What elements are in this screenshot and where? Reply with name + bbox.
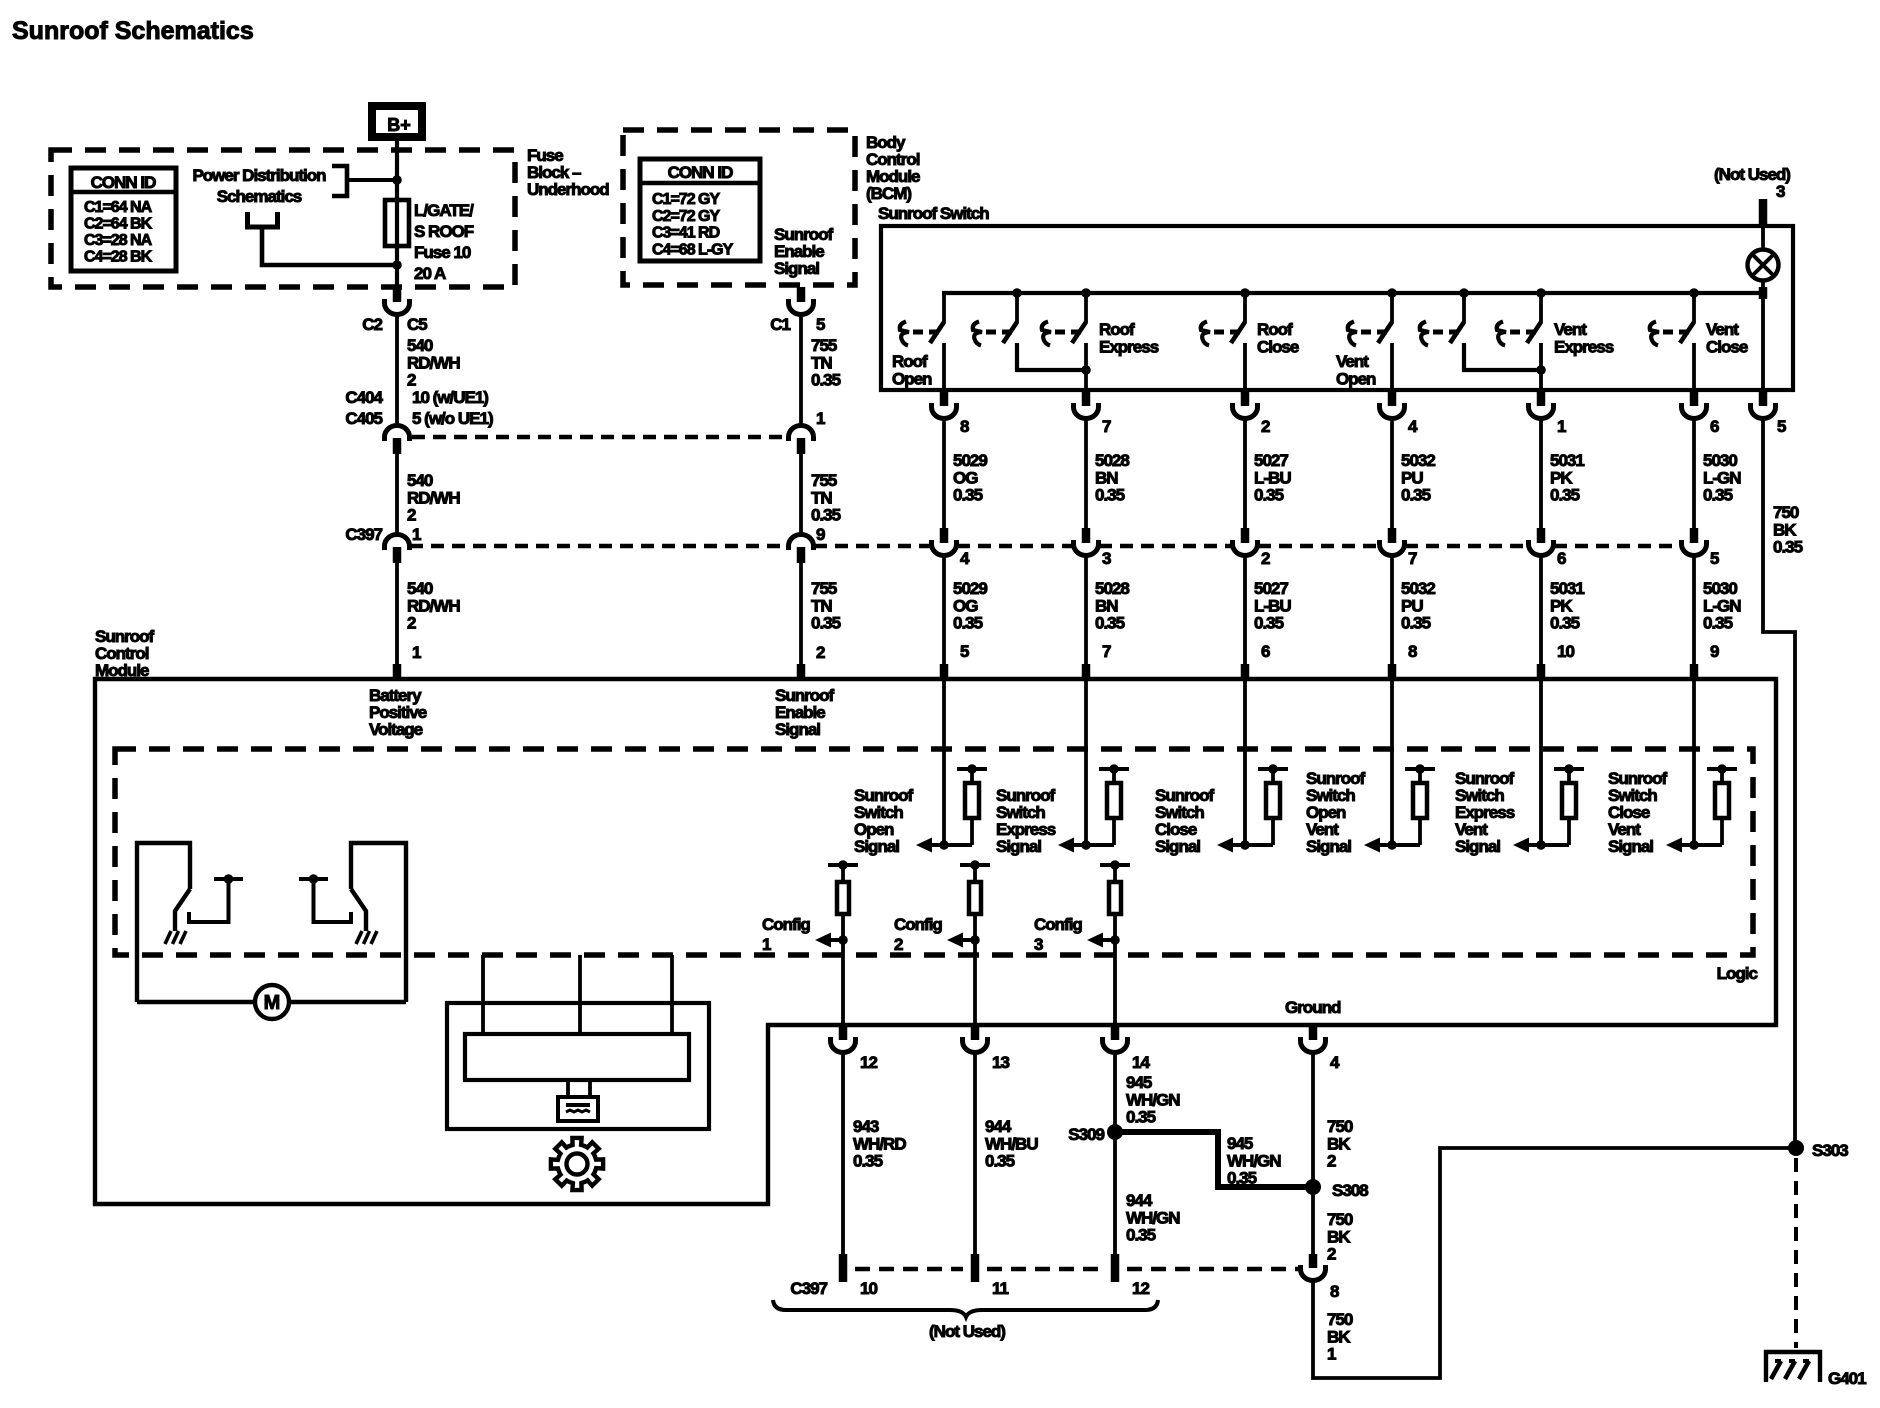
- svg-text:0.35: 0.35: [985, 1152, 1015, 1171]
- svg-text:5: 5: [1777, 417, 1786, 436]
- svg-text:5029: 5029: [953, 451, 987, 470]
- svg-text:C2=72 GY: C2=72 GY: [652, 208, 720, 225]
- in-line connector C397 pin 4: [940, 528, 949, 543]
- svg-text:C4=68 L-GY: C4=68 L-GY: [652, 241, 734, 258]
- config 3 take-off arrow: [1103, 938, 1115, 942]
- connector C1 pin stub: [797, 287, 806, 302]
- svg-text:0.35: 0.35: [1126, 1108, 1156, 1127]
- svg-text:Signal: Signal: [1306, 837, 1351, 856]
- module pin stub 7: [1082, 664, 1091, 678]
- link pair B to Vent Express: [1464, 343, 1541, 370]
- switch pair sw A: dashed actuator link: [986, 330, 996, 335]
- svg-text:Signal: Signal: [1155, 837, 1200, 856]
- resistor: [970, 769, 974, 783]
- svg-text:RD/WH: RD/WH: [407, 488, 460, 507]
- module pin stub (enable): [797, 664, 806, 678]
- wire 943 WH/RD: [841, 1052, 845, 1254]
- wire 755 TN segment 1: [799, 314, 803, 426]
- wire below Vent Open switch: [1390, 343, 1394, 390]
- wire to connector C2/C5: [395, 265, 399, 287]
- wire bus drop for Vent Open sw: [1390, 293, 1394, 323]
- wire below Roof Close switch: [1243, 343, 1247, 390]
- resistor: [1418, 769, 1422, 783]
- wire 5030 L-GN segment 2: [1692, 555, 1696, 665]
- svg-text:5030: 5030: [1703, 451, 1737, 470]
- wire 540 RD/WH segment 2: [395, 454, 399, 535]
- wire 5032 PU segment 1: [1390, 418, 1394, 528]
- svg-text:0.35: 0.35: [811, 614, 841, 633]
- resistor: [1720, 769, 1724, 783]
- svg-text:5: 5: [960, 642, 969, 661]
- BCM dashed outline: [623, 130, 855, 285]
- svg-text:1: 1: [762, 935, 771, 954]
- svg-text:B+: B+: [387, 115, 411, 135]
- wire 750 BK 2 to C397 pin 8: [1311, 1187, 1315, 1254]
- svg-text:6: 6: [1261, 642, 1270, 661]
- svg-text:1: 1: [1557, 417, 1566, 436]
- svg-text:6: 6: [1710, 417, 1719, 436]
- svg-text:12: 12: [860, 1053, 877, 1072]
- svg-text:0.35: 0.35: [1126, 1226, 1156, 1245]
- wire bus drop for Vent Close sw: [1692, 293, 1696, 323]
- svg-text:750: 750: [1327, 1210, 1353, 1229]
- pull-up bar: [1554, 767, 1584, 771]
- sunroof glass drive links: [481, 955, 485, 1034]
- svg-text:Config: Config: [1034, 915, 1082, 934]
- svg-text:2: 2: [407, 506, 416, 525]
- in-line connector C397 pin 3: [1082, 528, 1091, 543]
- in-line connector (enable wire): [789, 426, 814, 442]
- svg-text:755: 755: [811, 336, 837, 355]
- brace not used pins: [773, 1300, 1158, 1317]
- signal wire into module (Open Vent): [1390, 679, 1394, 845]
- svg-text:C5: C5: [407, 315, 427, 334]
- svg-text:CONN ID: CONN ID: [91, 173, 157, 192]
- junction fuse output: [392, 260, 402, 270]
- svg-text:2: 2: [894, 935, 903, 954]
- svg-text:0.35: 0.35: [1095, 614, 1125, 633]
- module pin stub (battery positive): [393, 664, 402, 678]
- svg-text:Vent: Vent: [1554, 320, 1587, 339]
- switch contact Roof Open sw: fixed contact: [900, 322, 909, 346]
- glass actuator block: [558, 1097, 598, 1121]
- pull-up bar: [1707, 767, 1737, 771]
- wire below Roof Express switch: [1084, 343, 1088, 390]
- svg-text:5031: 5031: [1550, 451, 1584, 470]
- wire U bracket to fuse output node: [262, 229, 397, 265]
- svg-text:L-GN: L-GN: [1703, 468, 1741, 487]
- svg-text:5: 5: [816, 315, 825, 334]
- sunroof switch connector pin 7: [1082, 391, 1091, 406]
- wire below Roof Open switch: [942, 343, 946, 390]
- svg-text:(Not Used): (Not Used): [929, 1322, 1005, 1341]
- wire bus drop for Roof Open sw: [942, 293, 946, 323]
- pull-up bar: [1258, 767, 1288, 771]
- wire 5027 L-BU segment 2: [1243, 555, 1247, 665]
- svg-text:S303: S303: [1812, 1141, 1848, 1160]
- svg-text:0.35: 0.35: [1254, 486, 1284, 505]
- module bottom connector pin 14: [1111, 1026, 1120, 1040]
- svg-text:3: 3: [1102, 549, 1111, 568]
- svg-text:8: 8: [960, 417, 969, 436]
- svg-text:PU: PU: [1401, 596, 1423, 615]
- switch contact Vent Open sw: fixed contact: [1348, 322, 1357, 346]
- wire lamp to bus junction: [1761, 280, 1765, 293]
- svg-text:Vent: Vent: [1336, 352, 1369, 371]
- svg-text:0.35: 0.35: [1773, 538, 1803, 557]
- svg-text:OG: OG: [953, 596, 978, 615]
- not-used stubs C397 pins 10 11 12: [839, 1254, 848, 1282]
- svg-text:12: 12: [1132, 1279, 1149, 1298]
- switch Vent Express sw: lever: [1527, 322, 1541, 343]
- sunroof switch outline: [881, 226, 1793, 390]
- sunroof control module outline: [95, 679, 1776, 1204]
- svg-text:1: 1: [816, 409, 825, 428]
- svg-text:PU: PU: [1401, 468, 1423, 487]
- harness dashed line C404/C405: [412, 435, 787, 440]
- signal take-off wire: [1074, 843, 1114, 847]
- relay contact left: frame: [137, 843, 190, 1002]
- pull-up bar: [1405, 767, 1435, 771]
- wire bus drop for Roof Close sw: [1243, 293, 1247, 323]
- connector C2/C5 pin stub: [393, 287, 402, 302]
- sunroof glass assembly outline: [447, 1003, 709, 1129]
- config 1 take-off arrow: [831, 938, 843, 942]
- svg-text:5032: 5032: [1401, 579, 1435, 598]
- fuse L/GATE / S ROOF Fuse 10 20A: [385, 200, 409, 246]
- svg-text:2: 2: [407, 371, 416, 390]
- svg-text:0.35: 0.35: [1550, 614, 1580, 633]
- connector C397 pin 8: [1309, 1254, 1318, 1268]
- wire B+ to fuse block: [395, 141, 399, 180]
- svg-text:Fuse 10: Fuse 10: [414, 243, 471, 262]
- svg-text:750: 750: [1327, 1117, 1353, 1136]
- svg-text:0.35: 0.35: [953, 614, 983, 633]
- config 3 pull-up bar: [1100, 863, 1130, 867]
- svg-text:Open: Open: [1336, 369, 1376, 388]
- module pin stub 6: [1241, 664, 1250, 678]
- svg-text:BK: BK: [1773, 520, 1797, 539]
- signal take-off wire: [1682, 843, 1722, 847]
- off-page bracket to Power Distribution: [332, 166, 347, 196]
- svg-text:1: 1: [412, 643, 421, 662]
- svg-text:Roof: Roof: [1257, 320, 1293, 339]
- wire 755 TN segment 3: [799, 563, 803, 665]
- resistor: [1271, 769, 1275, 783]
- signal wire into module (Express): [1084, 679, 1088, 845]
- sunroof switch connector pin 2: [1241, 391, 1250, 406]
- switch Vent Open sw: lever: [1378, 322, 1392, 343]
- svg-text:Sunroof Switch: Sunroof Switch: [878, 204, 989, 223]
- svg-text:BK: BK: [1327, 1134, 1351, 1153]
- svg-text:PK: PK: [1550, 468, 1573, 487]
- svg-text:Signal: Signal: [996, 837, 1041, 856]
- svg-text:Schematics: Schematics: [217, 187, 302, 206]
- svg-text:5027: 5027: [1254, 579, 1288, 598]
- fuse block dashed outline: [51, 150, 515, 287]
- wire 5030 L-GN segment 1: [1692, 418, 1696, 528]
- svg-text:10 (w/UE1): 10 (w/UE1): [412, 388, 488, 407]
- wire bus drop for pair sw A: [1015, 293, 1019, 323]
- svg-text:1: 1: [1327, 1345, 1336, 1364]
- svg-text:S308: S308: [1332, 1181, 1368, 1200]
- switch pair sw A: lever: [1003, 322, 1017, 343]
- relay contact left: NO contact: [214, 877, 243, 881]
- svg-text:750: 750: [1773, 503, 1799, 522]
- relay contact right: NO contact: [299, 877, 328, 881]
- svg-text:Express: Express: [1099, 337, 1159, 356]
- wire 5029 OG segment 1: [942, 418, 946, 528]
- svg-text:540: 540: [407, 579, 433, 598]
- pull-up bar: [1099, 767, 1129, 771]
- svg-text:5: 5: [1710, 549, 1719, 568]
- svg-text:RD/WH: RD/WH: [407, 596, 460, 615]
- svg-text:S309: S309: [1068, 1125, 1104, 1144]
- sunroof switch connector pin 4: [1388, 391, 1397, 406]
- switch contact Vent Express sw: fixed contact: [1497, 322, 1506, 346]
- wire 5031 PK segment 1: [1539, 418, 1543, 528]
- svg-text:8: 8: [1330, 1282, 1339, 1301]
- svg-text:2: 2: [1327, 1152, 1336, 1171]
- wire through fuse: [395, 180, 399, 265]
- svg-text:OG: OG: [953, 468, 978, 487]
- wire bracket to battery feed node: [347, 178, 397, 182]
- in-line connector C397 (enable wire): [789, 535, 814, 551]
- svg-text:C404: C404: [345, 388, 383, 407]
- svg-text:C397: C397: [345, 525, 382, 544]
- config 1 wire: [841, 914, 845, 1025]
- switch contact pair sw B: fixed contact: [1420, 322, 1429, 346]
- svg-text:5027: 5027: [1254, 451, 1288, 470]
- wire 750 BK 0.35 from pin 5: [1763, 418, 1795, 1148]
- svg-text:5028: 5028: [1095, 579, 1129, 598]
- sunroof switch connector pin 6: [1690, 391, 1699, 406]
- svg-text:755: 755: [811, 579, 837, 598]
- svg-text:3: 3: [1034, 935, 1043, 954]
- svg-text:C2: C2: [362, 315, 382, 334]
- wire 5028 BN segment 2: [1084, 555, 1088, 665]
- svg-text:C1=64 NA: C1=64 NA: [84, 199, 153, 216]
- svg-text:755: 755: [811, 471, 837, 490]
- pull-up bar: [957, 767, 987, 771]
- svg-text:Signal: Signal: [1608, 837, 1653, 856]
- svg-text:PK: PK: [1550, 596, 1573, 615]
- svg-text:Config: Config: [762, 915, 810, 934]
- svg-text:S ROOF: S ROOF: [414, 222, 474, 241]
- switch Roof Close sw: dashed actuator link: [1214, 330, 1224, 335]
- svg-text:WH/GN: WH/GN: [1126, 1208, 1180, 1227]
- svg-text:943: 943: [853, 1117, 879, 1136]
- svg-text:9: 9: [816, 525, 825, 544]
- svg-text:C397: C397: [790, 1279, 827, 1298]
- svg-text:7: 7: [1102, 642, 1111, 661]
- svg-text:C1=72 GY: C1=72 GY: [652, 191, 720, 208]
- svg-text:0.35: 0.35: [811, 371, 841, 390]
- svg-text:G401: G401: [1828, 1369, 1866, 1388]
- svg-text:Vent: Vent: [1706, 320, 1739, 339]
- svg-text:0.35: 0.35: [953, 486, 983, 505]
- splice S309: [1107, 1124, 1123, 1140]
- wire 944 WH/BU: [973, 1052, 977, 1254]
- in-line connector C397 pin 6: [1537, 528, 1546, 543]
- svg-text:540: 540: [407, 336, 433, 355]
- svg-text:0.35: 0.35: [1227, 1169, 1257, 1188]
- svg-text:C3=41 RD: C3=41 RD: [652, 225, 720, 242]
- resistor: [1567, 769, 1571, 783]
- switch contact Roof Close sw: fixed contact: [1201, 322, 1210, 346]
- link pair A to Roof Express: [1017, 343, 1086, 370]
- svg-text:Ground: Ground: [1285, 998, 1341, 1017]
- svg-text:5 (w/o UE1): 5 (w/o UE1): [412, 409, 493, 428]
- wire 5028 BN segment 1: [1084, 418, 1088, 528]
- module pin stub 9: [1690, 664, 1699, 678]
- svg-text:0.35: 0.35: [1095, 486, 1125, 505]
- module pin stub 5: [940, 664, 949, 678]
- svg-text:944: 944: [985, 1117, 1012, 1136]
- svg-text:RD/WH: RD/WH: [407, 353, 460, 372]
- signal wire into module (Close): [1243, 679, 1247, 845]
- svg-text:Close: Close: [1706, 337, 1748, 356]
- connector C2/C5: [385, 299, 410, 314]
- svg-text:BN: BN: [1095, 596, 1118, 615]
- signal take-off wire: [932, 843, 972, 847]
- switch pair sw B: dashed actuator link: [1433, 330, 1443, 335]
- svg-text:Open: Open: [892, 369, 932, 388]
- splice S303: [1788, 1140, 1804, 1156]
- wire 5027 L-BU segment 1: [1243, 418, 1247, 528]
- svg-text:2: 2: [816, 643, 825, 662]
- wire bus drop for Vent Express sw: [1539, 293, 1543, 323]
- svg-text:BK: BK: [1327, 1227, 1351, 1246]
- signal wire into module (Open): [942, 679, 946, 845]
- config 1 pull-up bar: [828, 863, 858, 867]
- svg-text:Roof: Roof: [1099, 320, 1135, 339]
- lamp (illumination) symbol: [1748, 250, 1779, 281]
- svg-text:0.35: 0.35: [811, 506, 841, 525]
- svg-text:L-GN: L-GN: [1703, 596, 1741, 615]
- config 2 take-off arrow: [963, 938, 975, 942]
- svg-text:944: 944: [1126, 1191, 1153, 1210]
- wire 750 BK 1 to S303: [1313, 1148, 1796, 1378]
- junction battery feed: [392, 175, 402, 185]
- svg-text:TN: TN: [811, 596, 832, 615]
- svg-text:10: 10: [1557, 642, 1574, 661]
- harness dashed line C397 row: [410, 544, 788, 549]
- sunroof switch connector pin 8: [940, 391, 949, 406]
- module bottom connector pin 4: [1309, 1026, 1318, 1040]
- switch contact pair sw A: fixed contact: [973, 322, 982, 346]
- signal wire into module (Close Vent): [1692, 679, 1696, 845]
- svg-text:Roof: Roof: [892, 352, 928, 371]
- svg-text:CONN ID: CONN ID: [668, 163, 734, 182]
- wire 5032 PU segment 2: [1390, 555, 1394, 665]
- svg-text:750: 750: [1327, 1310, 1353, 1329]
- svg-text:20 A: 20 A: [414, 264, 446, 283]
- resistor: [1112, 769, 1116, 783]
- signal take-off wire: [1380, 843, 1420, 847]
- svg-text:BK: BK: [1327, 1327, 1351, 1346]
- switch Vent Close sw: dashed actuator link: [1663, 330, 1673, 335]
- svg-text:Signal: Signal: [1455, 837, 1500, 856]
- chassis ground right: [356, 931, 362, 944]
- svg-text:Signal: Signal: [854, 837, 899, 856]
- switch Roof Close sw: lever: [1231, 322, 1245, 343]
- logic dashed box: [115, 749, 1753, 955]
- svg-text:BN: BN: [1095, 468, 1118, 487]
- svg-text:Config: Config: [894, 915, 942, 934]
- glass actuator neck: [566, 1080, 570, 1097]
- wire 5031 PK segment 2: [1539, 555, 1543, 665]
- svg-text:C3=28 NA: C3=28 NA: [84, 232, 153, 249]
- switch Roof Open sw: lever: [930, 322, 944, 343]
- config 3 wire: [1113, 914, 1117, 1025]
- svg-text:945: 945: [1126, 1073, 1152, 1092]
- svg-text:Underhood: Underhood: [527, 180, 609, 199]
- svg-text:2: 2: [1261, 549, 1270, 568]
- module pin stub 8: [1388, 664, 1397, 678]
- wire 945 WH/GN jog to S308: [1115, 1132, 1313, 1187]
- svg-text:Close: Close: [1257, 337, 1299, 356]
- svg-text:6: 6: [1557, 549, 1566, 568]
- svg-text:C1: C1: [770, 315, 790, 334]
- svg-text:5030: 5030: [1703, 579, 1737, 598]
- config 3 resistor: [1113, 865, 1117, 882]
- svg-text:0.35: 0.35: [1703, 614, 1733, 633]
- wire 755 TN segment 2: [799, 454, 803, 535]
- svg-text:0.35: 0.35: [853, 1152, 883, 1171]
- svg-text:2: 2: [1261, 417, 1270, 436]
- wire 750 BK 2 from ground pin 4: [1311, 1052, 1315, 1187]
- signal take-off wire: [1233, 843, 1273, 847]
- svg-text:WH/GN: WH/GN: [1126, 1090, 1180, 1109]
- svg-text:L/GATE/: L/GATE/: [414, 201, 474, 220]
- svg-text:L-BU: L-BU: [1254, 468, 1291, 487]
- config 2 resistor: [973, 865, 977, 882]
- connector id table (BCM): [640, 159, 760, 261]
- svg-text:3: 3: [1776, 182, 1785, 201]
- battery feed B+ box: [372, 106, 422, 137]
- switch pair sw B: lever: [1450, 322, 1464, 343]
- signal wire into module (Express Vent): [1539, 679, 1543, 845]
- signal take-off wire: [1529, 843, 1569, 847]
- wire 5029 OG segment 2: [942, 555, 946, 665]
- harness dashed line C397 bottom row: [855, 1267, 963, 1271]
- svg-text:TN: TN: [811, 488, 832, 507]
- config 2 pull-up bar: [960, 863, 990, 867]
- svg-text:5031: 5031: [1550, 579, 1584, 598]
- module pin stub 10: [1537, 664, 1546, 678]
- sunroof switch connector pin 1: [1537, 391, 1546, 406]
- switch contact Roof Express sw: fixed contact: [1042, 322, 1051, 346]
- svg-text:WH/BU: WH/BU: [985, 1134, 1038, 1153]
- connector C1: [789, 299, 814, 315]
- svg-text:5028: 5028: [1095, 451, 1129, 470]
- chassis ground left: [165, 931, 171, 944]
- splice S308: [1305, 1179, 1321, 1195]
- svg-text:7: 7: [1408, 549, 1417, 568]
- svg-text:(BCM): (BCM): [866, 184, 911, 203]
- switch Vent Express sw: dashed actuator link: [1510, 330, 1520, 335]
- wire bus drop for Roof Express sw: [1084, 293, 1088, 323]
- svg-text:WH/GN: WH/GN: [1227, 1151, 1281, 1170]
- switch Vent Open sw: dashed actuator link: [1361, 330, 1371, 335]
- in-line connector C397 pin 5: [1690, 528, 1699, 543]
- svg-text:5032: 5032: [1401, 451, 1435, 470]
- wire 944 WH/GN below S309: [1113, 1132, 1117, 1254]
- svg-text:C4=28 BK: C4=28 BK: [84, 249, 153, 266]
- off-page U bracket: [248, 212, 278, 225]
- svg-text:13: 13: [992, 1053, 1009, 1072]
